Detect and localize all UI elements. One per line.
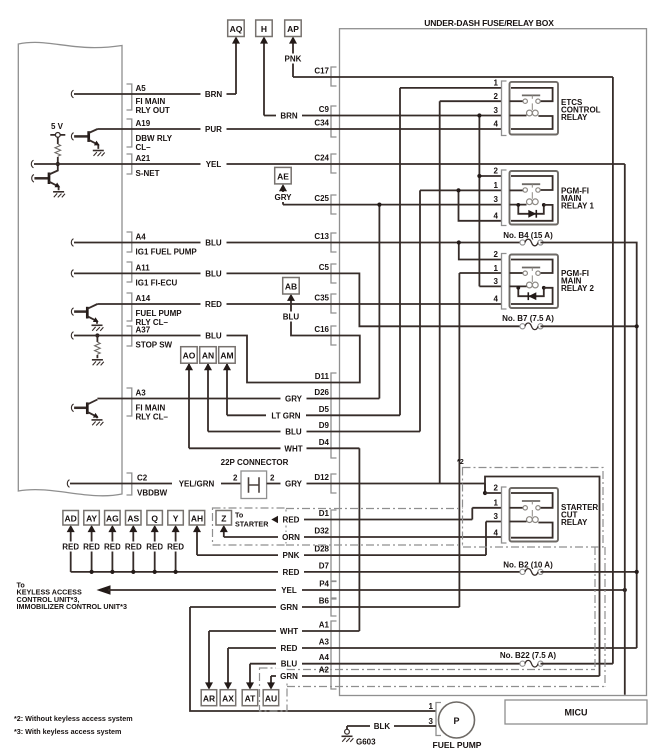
- wire relay1 pin1 drop to pin4 row: [459, 190, 502, 220]
- svg-text:To: To: [235, 511, 244, 520]
- svg-text:GRY: GRY: [285, 395, 303, 404]
- fuse No. B22 (7.5 A): [520, 660, 543, 667]
- resistor (5V pull-up): [55, 144, 61, 164]
- svg-text:4: 4: [494, 211, 499, 220]
- node A4 terminal bracket: [127, 232, 132, 252]
- connector AB: [283, 278, 300, 301]
- fuel pump connector bracket: [436, 703, 441, 736]
- wire A3 RED row from AX to bus636: [228, 648, 637, 688]
- node A14 terminal bracket: [127, 293, 132, 321]
- ECM pin label A4: [136, 233, 198, 257]
- wire A14 FUEL PUMP RLY CL- / RED / C35 to relay2 pin4: [97, 303, 501, 305]
- svg-text:AB: AB: [285, 282, 297, 292]
- svg-text:RELAY 2: RELAY 2: [561, 284, 594, 293]
- svg-text:1: 1: [494, 264, 499, 273]
- wire color label BLU 431.5: [281, 427, 307, 437]
- relay U3 PGM-FI MAIN RELAY 2: [494, 250, 595, 309]
- connector AD: [63, 511, 79, 533]
- wire B2 output to bus636: [541, 571, 637, 573]
- wire C25 GRY to AE and PGM-FI relay1 pin3: [283, 188, 502, 205]
- node C35 terminal bracket: [331, 294, 337, 313]
- node C2 terminal bracket: [127, 473, 132, 495]
- wire color label GRY 483.5: [281, 479, 307, 489]
- ECM pin label A14: [136, 294, 183, 327]
- dashed link lower: [286, 544, 463, 546]
- svg-text:A14: A14: [136, 294, 151, 303]
- connector Z: [216, 511, 232, 533]
- svg-text:D9: D9: [319, 421, 330, 430]
- svg-text:AY: AY: [86, 514, 97, 524]
- svg-text:3: 3: [494, 277, 499, 286]
- svg-text:AD: AD: [65, 514, 77, 524]
- ECM pin label A5: [136, 84, 170, 115]
- wire bus C17 net down to A4 fuse row: [612, 77, 614, 664]
- svg-text:STARTER: STARTER: [235, 520, 269, 529]
- svg-text:D5: D5: [319, 405, 330, 414]
- svg-text:Z: Z: [221, 514, 226, 524]
- svg-text:A4: A4: [319, 653, 330, 662]
- dashed link upper: [286, 508, 463, 510]
- svg-text:2: 2: [270, 474, 275, 483]
- node B6 terminal bracket: [331, 599, 337, 616]
- wire color label LT GRN 415.3: [266, 410, 306, 420]
- svg-text:3: 3: [494, 512, 499, 521]
- fuse No. B7 (7.5 A): [520, 323, 543, 330]
- wire A2 GRN row from AU: [271, 676, 600, 688]
- svg-text:No. B7 (7.5 A): No. B7 (7.5 A): [502, 314, 554, 323]
- wire B4 output right and down to B7 row: [541, 243, 637, 649]
- svg-text:YEL/GRN: YEL/GRN: [179, 480, 215, 489]
- wire ETCS pin1 row to bus400 down to D5: [400, 88, 502, 415]
- resistor (STOP SW pull-down): [95, 333, 101, 358]
- svg-text:GRN: GRN: [280, 672, 298, 681]
- svg-text:P4: P4: [319, 580, 329, 589]
- svg-text:STOP SW: STOP SW: [136, 341, 173, 350]
- connector AQ: [228, 20, 245, 44]
- svg-text:AO: AO: [183, 351, 196, 361]
- svg-text:1: 1: [494, 79, 499, 88]
- svg-text:IG1 FUEL PUMP: IG1 FUEL PUMP: [136, 248, 198, 257]
- svg-text:AU: AU: [265, 694, 277, 704]
- under-dash fuse/relay box outline: [340, 29, 647, 696]
- svg-text:RED: RED: [62, 543, 79, 552]
- svg-text:BLU: BLU: [285, 428, 302, 437]
- 5V supply: [50, 122, 65, 144]
- wire C13 drop to relay2 pin2: [459, 243, 502, 260]
- svg-text:C13: C13: [314, 232, 329, 241]
- wire A4 BLU row from AT to fuse B22: [250, 664, 523, 688]
- wire A2 loop to starter relay pin2: [485, 477, 600, 677]
- svg-text:C9: C9: [319, 105, 330, 114]
- node A37 terminal bracket: [127, 326, 132, 346]
- node junction P4 x bus624: [623, 588, 627, 592]
- svg-text:A21: A21: [136, 154, 151, 163]
- wire bus ETCS pin2 net down to D12 row: [439, 101, 441, 483]
- node C16 terminal bracket: [331, 326, 337, 345]
- svg-text:D26: D26: [314, 388, 329, 397]
- svg-text:S-NET: S-NET: [136, 169, 160, 178]
- connector AH: [189, 511, 205, 533]
- node C25 terminal bracket: [331, 195, 337, 214]
- wire Y riser: [174, 528, 178, 574]
- label BLK: [370, 721, 394, 732]
- svg-text:RED: RED: [83, 543, 100, 552]
- transistor Q3 (FUEL PUMP RLY driver): [71, 304, 99, 324]
- svg-text:H: H: [261, 24, 267, 34]
- svg-text:RLY CL–: RLY CL–: [136, 413, 169, 422]
- svg-text:RED: RED: [104, 543, 121, 552]
- wire D4 WHT row from AO down bus to A1: [189, 364, 359, 631]
- svg-text:2: 2: [494, 167, 499, 176]
- svg-text:AN: AN: [202, 351, 214, 361]
- wire C2 VBDBW / YEL-GRN to 22P connector: [67, 480, 241, 488]
- dashed box around AU (with keyless): [260, 668, 288, 711]
- wire color label RED riser 112.4: [99, 542, 125, 552]
- ECM pin label A21: [136, 154, 160, 178]
- wire color label YEL 590: [276, 585, 302, 595]
- wire color label RED riser 70.7: [58, 542, 84, 552]
- wire A3 FI MAIN RLY CL- / GRY / D26 row: [97, 398, 379, 400]
- svg-text:Q: Q: [151, 514, 158, 524]
- wire Q riser: [153, 528, 157, 574]
- svg-text:ORN: ORN: [282, 533, 300, 542]
- wire A1 WHT row from AR: [209, 631, 359, 688]
- svg-text:1: 1: [429, 702, 434, 711]
- fuse No. B2 (10 A): [520, 569, 543, 576]
- svg-text:Y: Y: [173, 514, 179, 524]
- node junction C13 x relay2 pin2 drop: [457, 240, 461, 244]
- svg-text:2: 2: [494, 484, 499, 493]
- wire color label RED riser 133.3: [120, 542, 146, 552]
- svg-text:A11: A11: [136, 264, 151, 273]
- ground (Q1 emitter): [93, 151, 105, 157]
- svg-text:*2: *2: [457, 457, 464, 466]
- svg-text:C5: C5: [319, 263, 330, 272]
- node C17 terminal bracket: [331, 67, 337, 86]
- svg-text:3: 3: [429, 717, 434, 726]
- connector AG: [105, 511, 121, 533]
- wire D7 RED row to fuse B2: [71, 571, 523, 573]
- node D1-D7 terminal bracket: [331, 510, 337, 581]
- wire color label WHT 631: [276, 626, 302, 636]
- label 22P CONNECTOR: [221, 458, 289, 483]
- node C13 terminal bracket: [331, 233, 337, 252]
- svg-text:BRN: BRN: [205, 90, 223, 99]
- transistor Q2 (S-NET driver): [32, 164, 62, 190]
- wire color label GRY riser: [270, 192, 296, 202]
- node A21 terminal bracket: [127, 154, 132, 174]
- svg-text:RED: RED: [167, 543, 184, 552]
- label To STARTER: [235, 511, 269, 529]
- wire color label BLU 663.7: [276, 659, 302, 669]
- wire AG riser: [110, 528, 114, 574]
- svg-text:C16: C16: [314, 325, 329, 334]
- svg-text:PNK: PNK: [285, 55, 302, 64]
- node D11-D4 terminal bracket: [331, 373, 337, 458]
- svg-text:G603: G603: [356, 738, 376, 747]
- wire color label BLU riser: [278, 312, 304, 322]
- svg-text:C24: C24: [314, 154, 329, 163]
- node junction B7 out x bus636: [635, 324, 639, 328]
- svg-text:PUR: PUR: [205, 125, 222, 134]
- svg-text:C17: C17: [314, 67, 329, 76]
- wire color label ORN 537: [278, 532, 304, 542]
- wire color label BRN 115.5: [276, 111, 302, 121]
- svg-text:No. B22 (7.5 A): No. B22 (7.5 A): [500, 651, 556, 660]
- node junction C9 x bus477: [477, 113, 481, 117]
- wire color label RED 648: [276, 643, 302, 653]
- wire A21 S-NET / YEL / C24: [31, 160, 624, 168]
- svg-text:C34: C34: [314, 119, 329, 128]
- svg-text:AG: AG: [106, 514, 119, 524]
- connector AE: [275, 167, 292, 191]
- connector AY: [84, 511, 100, 533]
- svg-text:BRN: BRN: [280, 112, 298, 121]
- svg-text:AS: AS: [127, 514, 139, 524]
- node A3 terminal bracket: [127, 388, 132, 416]
- wire A37 STOP SW / BLU to D11 up to C16 and AB: [71, 298, 359, 383]
- svg-text:FI MAIN: FI MAIN: [136, 97, 166, 106]
- wire Z riser from D32 row: [223, 528, 225, 537]
- svg-text:RELAY 1: RELAY 1: [561, 202, 594, 211]
- wire A5 FI MAIN RLY OUT / BRN to AQ: [71, 38, 236, 98]
- wire color label RED riser 154.7: [142, 542, 168, 552]
- node C9/C34 terminal bracket: [331, 106, 337, 137]
- node junction relay1 pin2 x bus477: [477, 174, 481, 178]
- svg-text:BLU: BLU: [205, 332, 222, 341]
- svg-text:AH: AH: [191, 514, 203, 524]
- dashed vertical V2: [604, 547, 606, 687]
- ECM pin label A3: [136, 389, 169, 422]
- svg-text:PNK: PNK: [283, 551, 300, 560]
- svg-text:LT GRN: LT GRN: [271, 411, 300, 420]
- wire color label RED 571.9: [278, 567, 304, 577]
- svg-text:2: 2: [233, 474, 238, 483]
- svg-text:2: 2: [494, 250, 499, 259]
- connector AT: [242, 682, 258, 705]
- svg-text:AE: AE: [277, 171, 289, 181]
- wire P4 YEL row to keyless access control unit: [97, 585, 625, 595]
- node C24 terminal bracket: [331, 154, 337, 173]
- svg-text:BLK: BLK: [374, 722, 391, 731]
- wire relay2 pin1 row down bus459 to B6: [459, 273, 501, 607]
- node C5 terminal bracket: [331, 264, 337, 283]
- connector AR: [201, 682, 217, 705]
- node A5 terminal bracket: [127, 84, 132, 110]
- svg-text:A37: A37: [136, 326, 151, 335]
- transistor Q4 (FI MAIN RLY driver): [71, 400, 99, 420]
- wire color label WHT 448.3: [281, 443, 307, 453]
- dashed vertical V1: [594, 547, 596, 670]
- svg-text:VBDBW: VBDBW: [137, 489, 168, 498]
- wire AD riser from D7 row: [70, 528, 72, 572]
- svg-text:D32: D32: [314, 527, 329, 536]
- connector AS: [126, 511, 142, 533]
- node junction 5V/A21: [56, 162, 60, 166]
- svg-text:RED: RED: [205, 300, 222, 309]
- node junction B2 out x bus636: [635, 570, 639, 574]
- node P4 terminal bracket: [331, 582, 337, 599]
- relay U2 PGM-FI MAIN RELAY 1: [494, 167, 595, 226]
- svg-text:A3: A3: [136, 389, 147, 398]
- svg-text:C35: C35: [314, 294, 329, 303]
- svg-text:WHT: WHT: [280, 627, 298, 636]
- svg-text:FUEL PUMP: FUEL PUMP: [433, 740, 482, 750]
- wire D32 ORN row to starter relay pin4: [224, 536, 502, 538]
- wire relay1 pin1 row to bus420: [420, 190, 502, 431]
- ECM pin label A19: [136, 119, 173, 152]
- svg-text:YEL: YEL: [206, 160, 222, 169]
- wire C9 BRN to H connector: [264, 38, 502, 116]
- ground G603: [342, 729, 377, 746]
- connector AU: [263, 682, 279, 705]
- svg-text:A19: A19: [136, 119, 151, 128]
- wire B7 output to bus636: [541, 325, 637, 327]
- ground (Q2 emitter): [53, 192, 65, 198]
- svg-text:4: 4: [494, 528, 499, 537]
- svg-text:GRN: GRN: [280, 603, 298, 612]
- transistor Q1 (DBW RLY driver): [71, 129, 100, 149]
- svg-text:YEL: YEL: [281, 586, 297, 595]
- wire D12 GRY row from 22P to drop at starter relay pin2: [267, 484, 485, 494]
- svg-text:RELAY: RELAY: [561, 518, 588, 527]
- wire color label PNK 555.1: [278, 550, 304, 560]
- wire color label PNK riser: [280, 54, 306, 64]
- dashed horizontal H1: [287, 669, 595, 671]
- fuel pump motor P: [429, 702, 482, 750]
- svg-text:AP: AP: [287, 24, 299, 34]
- svg-text:A5: A5: [136, 84, 147, 93]
- node junction relay1 pin1 x drop: [456, 188, 460, 192]
- wire BLK fuel pump ground: [347, 726, 436, 729]
- svg-text:A2: A2: [319, 666, 330, 675]
- svg-text:AT: AT: [245, 694, 257, 704]
- svg-text:UNDER-DASH FUSE/RELAY BOX: UNDER-DASH FUSE/RELAY BOX: [424, 18, 554, 28]
- wire D28 PNK row to starter relay pin3: [197, 522, 502, 556]
- svg-text:C25: C25: [314, 194, 329, 203]
- svg-text:4: 4: [494, 295, 499, 304]
- ECM pin label A11: [136, 264, 178, 288]
- svg-text:RED: RED: [283, 516, 300, 525]
- ECM pin label C2: [137, 474, 168, 498]
- svg-text:RED: RED: [125, 543, 142, 552]
- connector Y: [168, 511, 184, 533]
- svg-text:BLU: BLU: [205, 269, 222, 278]
- wire ETCS pin2 row: [440, 100, 502, 102]
- dashed horizontal H2: [287, 686, 605, 688]
- node junction starter pin2: [483, 491, 487, 495]
- node A1-A2 terminal bracket: [331, 621, 337, 689]
- svg-text:No. B2 (10 A): No. B2 (10 A): [503, 561, 553, 570]
- wire color label RED riser 91.6: [79, 542, 105, 552]
- svg-text:CL–: CL–: [136, 143, 152, 152]
- svg-text:A4: A4: [136, 233, 147, 242]
- svg-text:*2: Without keyless access sys: *2: Without keyless access system: [14, 714, 133, 723]
- svg-text:B6: B6: [319, 597, 330, 606]
- svg-text:FI MAIN: FI MAIN: [136, 404, 166, 413]
- wire D1 RED to starter relay pin1: [271, 508, 501, 524]
- svg-text:C2: C2: [137, 474, 148, 483]
- node junction C25 x bus380: [377, 203, 381, 207]
- connector AP: [285, 20, 302, 44]
- svg-text:IG1 FI-ECU: IG1 FI-ECU: [136, 279, 178, 288]
- wire bus C25/coil net down to D26 row: [378, 205, 380, 399]
- wire starter relay pin2 row: [485, 492, 502, 494]
- svg-text:2: 2: [494, 92, 499, 101]
- ECM/PCM connector block (wavy): [18, 42, 122, 495]
- svg-text:RED: RED: [283, 568, 300, 577]
- svg-text:22P CONNECTOR: 22P CONNECTOR: [221, 458, 289, 467]
- relay U1 ETCS CONTROL RELAY: [494, 79, 601, 136]
- wire color label YEL: [201, 159, 227, 169]
- svg-text:*3: With keyless access system: *3: With keyless access system: [14, 727, 121, 736]
- wire color label GRN 607: [276, 602, 302, 612]
- wire color label RED riser 175.6: [163, 542, 189, 552]
- svg-text:D11: D11: [315, 372, 330, 381]
- wire B6 GRN row and loop to fuel pump pin1: [190, 607, 459, 711]
- svg-text:BLU: BLU: [205, 239, 222, 248]
- svg-text:A3: A3: [319, 638, 330, 647]
- wire color label BLU: [201, 238, 227, 248]
- wire D9 BLU row from AN: [208, 364, 420, 432]
- wire color label GRY 398.5: [281, 394, 307, 404]
- svg-text:1: 1: [494, 181, 499, 190]
- MICU box: [505, 700, 647, 724]
- svg-text:AM: AM: [220, 351, 233, 361]
- wire color label RED: [201, 299, 227, 309]
- connector AN: [200, 347, 217, 371]
- node A19 terminal bracket: [127, 119, 132, 147]
- svg-text:GRY: GRY: [285, 480, 303, 489]
- wire bus C9 net down to relay2 pin3: [479, 116, 501, 287]
- svg-text:3: 3: [494, 106, 499, 115]
- node A11 terminal bracket: [127, 262, 132, 282]
- svg-text:3: 3: [494, 195, 499, 204]
- svg-text:AX: AX: [222, 694, 234, 704]
- wire color label BRN: [201, 89, 227, 99]
- wire A19 DBW RLY CL- / PUR / C34 to ETCS pin4: [98, 128, 502, 130]
- relay U4 STARTER CUT RELAY: [494, 484, 599, 543]
- svg-text:BLU: BLU: [281, 660, 298, 669]
- svg-text:No. B4 (15 A): No. B4 (15 A): [503, 231, 553, 240]
- connector AO: [181, 347, 198, 371]
- svg-text:D12: D12: [314, 473, 329, 482]
- svg-text:AQ: AQ: [230, 24, 243, 34]
- svg-text:D1: D1: [319, 509, 330, 518]
- svg-text:WHT: WHT: [284, 444, 302, 453]
- svg-text:GRY: GRY: [274, 193, 292, 202]
- svg-text:5 V: 5 V: [51, 122, 64, 131]
- 22P connector symbol: [241, 471, 267, 499]
- wire C17 PNK to AP: [293, 38, 613, 77]
- dashed box *2 around starter cut relay: [457, 457, 603, 547]
- fuse No. B4 (15 A): [520, 239, 543, 246]
- svg-text:RED: RED: [146, 543, 163, 552]
- connector Q: [147, 511, 163, 533]
- svg-text:RLY OUT: RLY OUT: [136, 106, 170, 115]
- wire AY riser: [90, 528, 94, 574]
- ground (STOP SW resistor): [92, 360, 104, 366]
- svg-text:MICU: MICU: [565, 708, 588, 718]
- wire B22 output to bus612: [541, 663, 613, 665]
- dashed box around Z connector (without keyless): [213, 508, 287, 545]
- wire color label RED 519.5: [278, 515, 304, 525]
- ground (Q4 emitter): [92, 420, 104, 426]
- svg-text:1: 1: [494, 498, 499, 507]
- svg-text:IMMOBILIZER CONTROL UNIT*3: IMMOBILIZER CONTROL UNIT*3: [17, 602, 127, 611]
- ECM pin label A37: [136, 326, 173, 350]
- svg-text:DBW RLY: DBW RLY: [136, 134, 173, 143]
